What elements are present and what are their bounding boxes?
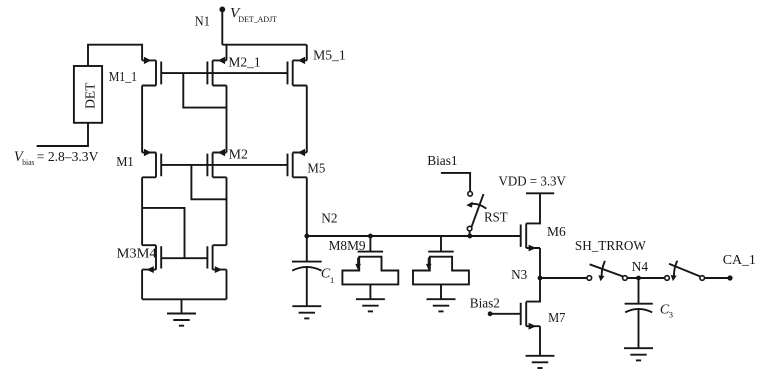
- power rail VDD: [526, 192, 554, 194]
- node N2: [304, 234, 309, 239]
- transistor M6: [521, 193, 540, 251]
- node N4: [636, 276, 641, 281]
- svg-text:N4: N4: [632, 260, 649, 275]
- svg-text:bias: bias: [22, 158, 34, 167]
- ground (C1): [292, 306, 321, 318]
- node: M8 bus junction: [368, 234, 373, 239]
- wire: M2_1 gate-drain tie: [183, 73, 226, 108]
- transistor M3: [142, 245, 161, 273]
- wire: M3M4 source rail: [142, 298, 226, 300]
- transistor M1_1: [142, 57, 161, 86]
- wire: M1_1 source to M1 drain: [141, 86, 143, 153]
- ground (C3): [624, 348, 653, 360]
- transistor M7: [521, 278, 540, 330]
- wire: gate line M1/M2/M5: [161, 164, 287, 166]
- wire: first switch to second switch through N4: [627, 277, 665, 279]
- wire: Bias1 to RST switch: [441, 173, 470, 192]
- wire: M5 drain to node N2: [306, 177, 308, 236]
- node N3: [538, 276, 543, 281]
- wire: M6 source to node N3: [539, 248, 541, 278]
- switch SH_TRROW (first): [587, 261, 627, 281]
- wire: rail to ground stem: [181, 299, 183, 313]
- wire: second switch to CA_1: [705, 277, 731, 279]
- ground (M7): [526, 356, 555, 368]
- svg-text:M1: M1: [116, 155, 134, 170]
- capacitor C3: [625, 278, 653, 348]
- transistor M5: [288, 149, 307, 178]
- node CA_1 terminal: [727, 275, 732, 280]
- svg-text:3: 3: [669, 310, 673, 320]
- ground (M9): [427, 299, 456, 311]
- wire: M1 drain to M3 drain: [141, 177, 143, 245]
- svg-text:Bias1: Bias1: [427, 154, 457, 169]
- svg-text:M2: M2: [229, 148, 248, 163]
- node: RST bus junction: [467, 234, 472, 239]
- wire: M3 gate-drain tie: [142, 208, 184, 258]
- svg-text:Bias2: Bias2: [470, 296, 500, 311]
- transistor M1: [142, 149, 161, 178]
- ground (M3M4): [167, 314, 196, 326]
- MOS capacitor M9: [413, 236, 469, 299]
- svg-text:CA_1: CA_1: [723, 253, 756, 268]
- wire: M2_1 drain to M2 source: [226, 86, 228, 153]
- transistor M2_1: [207, 57, 226, 86]
- wire: DET bottom to Vbias terminal: [37, 123, 88, 146]
- svg-text:M6: M6: [547, 225, 566, 240]
- wire: gate line M3/M4: [161, 257, 207, 259]
- wire: N2 bus to M6 gate: [307, 235, 521, 237]
- transistor M5_1: [288, 57, 307, 86]
- svg-text:M7: M7: [548, 311, 565, 326]
- svg-text:N2: N2: [321, 212, 337, 227]
- svg-text:M2_1: M2_1: [228, 55, 260, 70]
- wire: gate line M1_1/M2_1/M5_1: [161, 72, 287, 74]
- wire: top rail from DET to M1_1 drain: [88, 45, 142, 66]
- ground (M8): [356, 299, 385, 311]
- svg-text:M1_1: M1_1: [109, 70, 137, 85]
- wire: M3 source down: [141, 270, 143, 300]
- node N1 (terminal dot): [219, 6, 225, 12]
- wire: N3 to first switch: [540, 277, 587, 279]
- svg-text:N3: N3: [511, 268, 527, 283]
- wire: M2 drain to M4 drain: [226, 177, 228, 245]
- switch SH_TRROW (second): [665, 261, 705, 281]
- transistor M2: [207, 149, 226, 178]
- svg-text:DET: DET: [83, 82, 98, 109]
- detector DET box: [74, 66, 102, 123]
- wire: N1 stem and top rail to M5_1 drain: [222, 9, 306, 60]
- wire: M5_1 drain to M5 source: [306, 86, 308, 153]
- transistor M4: [207, 245, 226, 273]
- svg-text:= 2.8–3.3V: = 2.8–3.3V: [37, 150, 99, 165]
- svg-text:N1: N1: [195, 14, 210, 29]
- svg-text:DET_ADJT: DET_ADJT: [238, 15, 277, 24]
- wire: M2 gate-drain tie: [191, 165, 226, 199]
- MOS capacitor M8: [342, 236, 398, 299]
- wire: M7 source to ground: [539, 326, 541, 356]
- svg-text:1: 1: [330, 275, 334, 285]
- svg-text:M5: M5: [307, 161, 325, 176]
- node Bias2 terminal: [488, 311, 493, 316]
- svg-text:VDD = 3.3V: VDD = 3.3V: [499, 175, 566, 190]
- svg-text:SH_TRROW: SH_TRROW: [575, 239, 647, 254]
- svg-text:RST: RST: [484, 211, 508, 226]
- svg-text:M5_1: M5_1: [313, 49, 346, 64]
- capacitor C1: [292, 236, 322, 306]
- svg-text:M3M4: M3M4: [117, 246, 157, 261]
- switch RST: [466, 192, 486, 237]
- wire: Bias2 to M7 gate: [490, 313, 521, 315]
- wire: M4 source down: [226, 270, 228, 300]
